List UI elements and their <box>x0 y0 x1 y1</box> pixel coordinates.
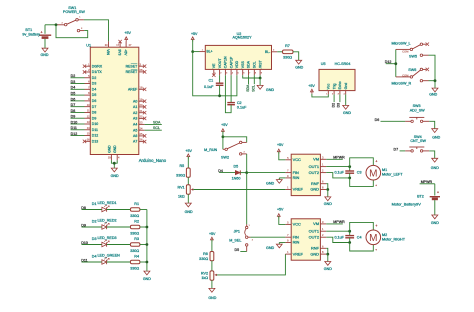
pin 3V3 (17) of U1 with no-connect <box>119 41 121 47</box>
svg-text:D7: D7 <box>394 148 399 152</box>
svg-text:SW2: SW2 <box>221 156 229 160</box>
svg-text:330Ω: 330Ω <box>130 267 139 271</box>
ground for LED rail <box>144 271 150 275</box>
svg-text:JP1: JP1 <box>234 230 240 234</box>
pin A3 (22) of U1 <box>139 117 145 119</box>
net label SDA vertical below U2 <box>248 75 250 84</box>
svg-text:GND: GND <box>208 296 216 300</box>
wire: SW1 to U1 VIN <box>84 20 109 42</box>
wire: +5V down to SW2 common <box>222 137 224 150</box>
svg-text:GND: GND <box>107 145 111 153</box>
svg-text:C4: C4 <box>357 235 362 239</box>
resistor R4 330ohm <box>130 260 140 264</box>
wire: SW6 NC to ground junction <box>429 80 436 82</box>
svg-text:M1: M1 <box>382 168 387 172</box>
wire: R5 to RV1 <box>187 177 189 185</box>
net label SDA wire from A4 <box>145 123 162 125</box>
net label D3 vertical below U5 Echo <box>339 94 341 102</box>
wire: SW2 NC down to diode junction <box>246 154 248 173</box>
junction U3 RNF/GND <box>326 188 329 191</box>
svg-text:330Ω: 330Ω <box>283 56 292 60</box>
svg-text:GND: GND <box>113 145 117 153</box>
svg-text:+: + <box>437 191 439 195</box>
svg-text:VREF: VREF <box>293 187 304 192</box>
svg-text:U5: U5 <box>321 62 326 66</box>
pin RESET (28) of U1 <box>139 71 145 73</box>
svg-text:D1: D1 <box>92 202 97 206</box>
wire: +5V rail down and across to VDD <box>193 52 237 96</box>
svg-text:D9: D9 <box>71 115 76 119</box>
wire: battery BT1 positive to junction <box>44 25 46 34</box>
svg-text:GND: GND <box>431 166 439 170</box>
pin OUT2 of U3 <box>320 172 326 174</box>
svg-text:FIN: FIN <box>293 234 299 239</box>
pin VCC of U3 <box>285 159 291 161</box>
svg-text:GND: GND <box>143 277 151 281</box>
no-connect on SW5 NO <box>426 43 429 46</box>
ground for microswitches <box>432 88 438 92</box>
svg-text:R6: R6 <box>203 252 208 256</box>
wire: U3 RNF to GND pin <box>326 184 328 190</box>
svg-text:GND: GND <box>41 53 49 57</box>
wire: U4 RNF to GND pin <box>326 248 328 254</box>
svg-text:LED_GREEN: LED_GREEN <box>98 253 121 257</box>
svg-text:R5: R5 <box>179 164 184 168</box>
pin RNF of U4 <box>320 247 326 249</box>
pin D6 (9) of U1 <box>85 100 91 102</box>
svg-text:D7: D7 <box>71 103 76 107</box>
pin GND of U4 <box>320 253 326 255</box>
svg-text:SCL: SCL <box>153 126 160 130</box>
svg-text:+5V: +5V <box>277 208 284 212</box>
resistor R3 330ohm <box>130 243 140 247</box>
pin BL- of U2 <box>272 51 278 53</box>
svg-text:330Ω: 330Ω <box>199 257 208 261</box>
wire: U3 OUT1 to motor and C3 <box>326 166 350 168</box>
wire: +5V to U5 Vcc <box>312 94 328 97</box>
svg-text:CAP1P: CAP1P <box>229 56 233 68</box>
LED D3 LED_RED3 <box>102 242 107 246</box>
junction node battery/switch <box>55 23 58 26</box>
wire: SW1 NC contact loop back to battery node <box>56 25 88 38</box>
svg-text:RV1: RV1 <box>177 186 184 190</box>
pin D13 (16) of U1 <box>85 140 91 142</box>
no-connect on AREF <box>143 88 146 91</box>
LED D2 LED_RED2 <box>102 225 107 229</box>
ground for U4 <box>325 262 331 266</box>
svg-text:D3: D3 <box>337 103 341 108</box>
wire: +5V to SW2 NO contact <box>223 137 247 143</box>
svg-text:D11: D11 <box>92 128 98 132</box>
wire: U4 OUT1 to motor and C4 <box>326 230 350 232</box>
power +5V above U1 <box>125 37 128 40</box>
ground for SW3 <box>432 129 438 133</box>
svg-text:330Ω: 330Ω <box>130 232 139 236</box>
svg-text:D12: D12 <box>92 134 98 138</box>
resistor R5 330ohm <box>186 168 190 177</box>
svg-text:MPWR: MPWR <box>333 220 345 224</box>
junction rail row2 <box>146 226 149 229</box>
svg-text:0.1uF: 0.1uF <box>334 171 344 175</box>
svg-text:+5V: +5V <box>209 232 216 236</box>
capacitor C4 0.1uF across motor M2 <box>349 231 351 235</box>
svg-text:OUT2: OUT2 <box>309 170 319 175</box>
svg-text:LED_RED1: LED_RED1 <box>98 201 117 205</box>
capacitor C1 0.1uF on VOUT <box>219 75 221 83</box>
svg-text:GND: GND <box>310 251 319 256</box>
pin D9 (12) of U1 <box>85 117 91 119</box>
svg-text:R1: R1 <box>134 202 139 206</box>
svg-text:D2: D2 <box>92 76 97 80</box>
no-connect on A0 <box>143 100 146 103</box>
svg-text:AQM1602Y: AQM1602Y <box>232 36 252 40</box>
svg-text:BT1: BT1 <box>25 28 32 32</box>
svg-text:GND: GND <box>185 210 193 214</box>
svg-text:D3: D3 <box>92 82 97 86</box>
pin RIN of U4 <box>285 242 291 244</box>
svg-text:0.1uF: 0.1uF <box>237 106 247 110</box>
svg-text:330Ω: 330Ω <box>176 174 185 178</box>
svg-text:VM: VM <box>313 157 319 162</box>
junction U4 RNF/GND <box>326 253 329 256</box>
wire: U1 GND pins join <box>111 160 117 163</box>
svg-text:Trig: Trig <box>332 83 336 89</box>
no-connect on SW6 NO <box>426 68 429 71</box>
svg-text:A3: A3 <box>133 117 137 121</box>
LCD module U2 AQM1602Y body <box>205 45 271 69</box>
svg-text:POWER_SW: POWER_SW <box>63 10 85 14</box>
pin OUT1 of U4 <box>320 230 326 232</box>
svg-text:FIN: FIN <box>293 170 299 175</box>
wire: U3 OUT2 to C3 bottom and motor <box>326 173 350 178</box>
svg-text:U1: U1 <box>86 43 91 47</box>
no-connect on RESET <box>143 70 146 73</box>
pin VM of U4 <box>320 223 326 225</box>
svg-text:MicroSW_L: MicroSW_L <box>392 41 411 45</box>
svg-text:1kΩ: 1kΩ <box>201 276 208 280</box>
motor M2 Motor_RIGHT <box>366 230 381 245</box>
svg-text:SW5: SW5 <box>409 55 417 59</box>
pin D7 (10) of U1 <box>85 106 91 108</box>
no-connect on D1/TX <box>83 70 86 73</box>
svg-text:D12: D12 <box>71 132 78 136</box>
svg-text:AREF: AREF <box>128 87 137 91</box>
pin GND (4) of U1 bottom <box>116 155 118 161</box>
pin A6 (25) of U1 <box>139 135 145 137</box>
svg-text:+5V: +5V <box>191 32 198 36</box>
svg-text:OUT1: OUT1 <box>309 228 319 233</box>
junction diode / M_RUN rail <box>245 171 248 174</box>
svg-text:VIN: VIN <box>106 49 110 55</box>
svg-text:BL+: BL+ <box>207 50 213 54</box>
svg-text:D5: D5 <box>234 164 239 168</box>
ground for RV1 <box>185 203 191 207</box>
svg-text:GND: GND <box>429 93 437 97</box>
svg-text:GND: GND <box>432 135 440 139</box>
pin AREF (18) of U1 <box>139 88 145 90</box>
svg-text:R2: R2 <box>134 220 139 224</box>
svg-text:GND: GND <box>324 202 332 206</box>
svg-text:D5: D5 <box>235 248 240 252</box>
ground for BT2 <box>432 215 438 219</box>
net label SCL vertical below U2 <box>253 75 255 84</box>
svg-text:3V3: 3V3 <box>118 49 122 55</box>
power +5V for R5 <box>187 154 190 157</box>
ground below BT1 <box>42 48 48 52</box>
pin VIN (30) of U1 <box>108 41 110 47</box>
pin A2 (21) of U1 <box>139 112 145 114</box>
net label D12 wire <box>386 63 396 65</box>
pin RNF of U3 <box>320 183 326 185</box>
svg-text:R3: R3 <box>134 237 139 241</box>
ground for U2 <box>257 85 263 89</box>
svg-text:+: + <box>375 224 377 228</box>
pin RIN of U3 <box>285 177 291 179</box>
svg-text:GND: GND <box>266 181 275 185</box>
pin A7 (26) of U1 <box>139 141 145 143</box>
net label D4 wire <box>71 88 85 90</box>
svg-text:M: M <box>369 168 377 179</box>
svg-text:C3: C3 <box>357 171 362 175</box>
svg-text:SW6: SW6 <box>408 68 416 72</box>
wire: D3 to R3 <box>107 244 131 246</box>
wire: battery BT1 negative to ground <box>44 39 46 49</box>
net label D8 wire <box>71 111 85 113</box>
pin OUT1 of U3 <box>320 166 326 168</box>
svg-text:VE: VE <box>212 63 216 68</box>
wire: R1 to ground rail <box>140 209 147 211</box>
svg-text:VOUT: VOUT <box>218 58 222 69</box>
svg-text:VM: VM <box>313 221 319 226</box>
pin D2 (5) of U1 <box>85 77 91 79</box>
svg-text:+5V: +5V <box>124 31 131 35</box>
pin D0/RX (1) of U1 <box>85 65 91 67</box>
net label D2 wire <box>71 77 85 79</box>
svg-text:D1/TX: D1/TX <box>92 70 103 74</box>
pin Trig (2) of U5 <box>333 91 335 95</box>
wire: R2 to ground rail <box>140 226 147 228</box>
pin VCC of U4 <box>285 223 291 225</box>
svg-text:RNF: RNF <box>311 181 320 186</box>
pin D11 (14) of U1 <box>85 129 91 131</box>
ground at U3 RIN <box>279 177 285 179</box>
net label D11 wire <box>71 129 85 131</box>
net label D3 wire <box>71 83 85 85</box>
svg-text:R7: R7 <box>285 44 290 48</box>
svg-text:OUT2: OUT2 <box>309 234 319 239</box>
svg-text:A6: A6 <box>133 134 137 138</box>
pin RESET (3) of U1 <box>139 65 145 67</box>
svg-text:D4: D4 <box>92 87 97 91</box>
pin SDA (7) of U2 <box>248 69 250 75</box>
no-connect on A6 <box>143 134 146 137</box>
ground for RV2 <box>209 288 215 292</box>
wire: R3 to ground rail <box>140 244 147 246</box>
pin FIN of U3 <box>285 172 291 174</box>
wire: left rail for microswitches <box>395 49 397 77</box>
pin VREF of U3 <box>285 189 291 191</box>
svg-text:9v_Battery: 9v_Battery <box>22 33 40 37</box>
wire: LED ground rail <box>146 210 148 272</box>
svg-text:Echo: Echo <box>338 81 342 89</box>
svg-text:Motor_Battery9V: Motor_Battery9V <box>392 202 422 207</box>
svg-text:COM: COM <box>402 73 408 77</box>
svg-text:Motor_LEFT: Motor_LEFT <box>382 173 403 177</box>
net label SCL wire from A5 <box>145 129 162 131</box>
power +5V for U2 backlight <box>191 37 194 40</box>
wire: VSS and /RST to ground <box>243 75 260 78</box>
net label D7 wire <box>71 106 85 108</box>
net label D6 wire <box>71 100 85 102</box>
wire: D1 to R1 <box>107 209 131 211</box>
svg-text:SCL: SCL <box>253 61 257 68</box>
svg-text:D5: D5 <box>71 92 76 96</box>
pin FIN of U4 <box>285 236 291 238</box>
svg-text:+5V: +5V <box>308 84 315 88</box>
svg-text:GND: GND <box>324 267 332 271</box>
pin OUT2 of U4 <box>320 236 326 238</box>
svg-text:D6: D6 <box>71 97 76 101</box>
svg-text:Arduino_Nano: Arduino_Nano <box>139 158 167 163</box>
junction +5V SW2 <box>222 135 225 138</box>
wire: M_RUN rail down to JP1 <box>246 173 248 225</box>
svg-text:RESET: RESET <box>126 70 139 74</box>
junction rail row3 <box>146 243 149 246</box>
svg-text:+5V: +5V <box>124 49 128 56</box>
wire: R4 to ground rail <box>140 261 147 263</box>
pin A4 (23) of U1 <box>139 123 145 125</box>
svg-text:A1: A1 <box>133 105 137 109</box>
pin A1 (20) of U1 <box>139 106 145 108</box>
svg-text:D3: D3 <box>92 237 97 241</box>
battery BT1 9v_Battery <box>39 34 51 36</box>
pin BL+ of U2 <box>200 51 206 53</box>
svg-text:D12: D12 <box>385 60 392 64</box>
wire: +5V to BL+ <box>193 51 200 53</box>
svg-text:M: M <box>369 233 377 244</box>
svg-text:1kΩ: 1kΩ <box>178 195 185 199</box>
pin D8 (11) of U1 <box>85 111 91 113</box>
potentiometer RV2 1kohm <box>210 271 214 280</box>
svg-text:D2: D2 <box>71 74 76 78</box>
motor driver U4 body <box>291 219 320 260</box>
pin VDD (5) of U2 <box>236 69 238 75</box>
svg-text:+5V: +5V <box>277 143 284 147</box>
svg-text:OUT1: OUT1 <box>309 164 319 169</box>
pin Echo (3) of U5 <box>339 91 341 95</box>
op-amp U1 Arduino_Nano body <box>90 47 139 154</box>
svg-text:GND: GND <box>295 66 303 70</box>
svg-text:SDA: SDA <box>153 120 161 124</box>
pin VM of U3 <box>320 158 326 160</box>
svg-text:RV2: RV2 <box>201 271 208 275</box>
pin Gnd (4) of U5 <box>345 91 347 95</box>
no-connect on A1 <box>143 105 146 108</box>
svg-text:GND: GND <box>431 221 439 225</box>
svg-text:D7: D7 <box>92 105 97 109</box>
svg-text:Gnd: Gnd <box>344 83 348 90</box>
svg-text:D13: D13 <box>92 139 98 143</box>
svg-text:M_SEL: M_SEL <box>229 238 241 242</box>
power +5V for U4 <box>277 214 280 217</box>
svg-text:ADJ_SW: ADJ_SW <box>410 108 425 112</box>
svg-text:D4: D4 <box>71 86 76 90</box>
wire: SW4 to ground <box>429 151 435 158</box>
svg-text:A4: A4 <box>133 123 137 127</box>
junction rail row4 <box>146 261 149 264</box>
svg-text:RIN: RIN <box>293 240 300 245</box>
ground for SW4 <box>432 158 438 162</box>
sensor U5 HC-SR04 body <box>319 69 355 90</box>
svg-text:VCC: VCC <box>293 222 301 227</box>
svg-text:D10: D10 <box>92 122 98 126</box>
no-connect on RESET <box>143 65 146 68</box>
net label D2 vertical below U5 Trig <box>333 94 335 102</box>
svg-text:M_RUN: M_RUN <box>204 148 217 152</box>
net label D5 wire <box>71 94 85 96</box>
svg-text:GND: GND <box>310 187 319 192</box>
svg-text:VSS: VSS <box>241 61 245 69</box>
svg-text:LED_RED3: LED_RED3 <box>98 236 117 240</box>
svg-text:D2: D2 <box>332 103 336 108</box>
pin D10 (13) of U1 <box>85 123 91 125</box>
svg-text:VDD: VDD <box>235 60 239 68</box>
pin A5 (24) of U1 <box>139 129 145 131</box>
svg-text:C2: C2 <box>237 101 242 105</box>
svg-text:A2: A2 <box>133 111 137 115</box>
svg-text:D8: D8 <box>92 111 97 115</box>
svg-text:RESET: RESET <box>126 64 139 68</box>
wire: BT2 to ground <box>434 200 436 215</box>
potentiometer RV1 1kohm <box>186 185 190 194</box>
svg-text:D2: D2 <box>92 220 97 224</box>
pin D5 (8) of U1 <box>85 94 91 96</box>
svg-text:BT2: BT2 <box>417 194 424 198</box>
no-connect on A3 <box>143 117 146 120</box>
wire: SW5 NC to right rail <box>429 55 436 80</box>
pin GND (29) of U1 bottom <box>110 155 112 161</box>
pin CAP1N (3) of U2 <box>224 69 226 75</box>
wire: diode to U3 FIN <box>240 172 246 174</box>
junction +5V / BL+ <box>191 50 194 53</box>
svg-text:VREF: VREF <box>293 251 304 256</box>
wire: D4 to R4 <box>107 261 131 263</box>
net label D5 wire at JP1 pin3 <box>240 251 246 253</box>
svg-text:GND: GND <box>111 174 119 178</box>
net label MPWR at U4 VM <box>326 223 343 225</box>
wire: JP1 pin2 to U4 FIN <box>250 236 285 238</box>
svg-text:SDA: SDA <box>247 60 251 68</box>
pin D4 (7) of U1 <box>85 88 91 90</box>
svg-text:MicroSW_R: MicroSW_R <box>392 81 412 85</box>
pin D12 (15) of U1 <box>85 135 91 137</box>
svg-text:COM: COM <box>402 49 408 53</box>
ground for U5 <box>343 105 349 109</box>
pin Vcc (1) of U5 <box>327 91 329 95</box>
svg-text:D6: D6 <box>375 118 380 122</box>
svg-text:A5: A5 <box>133 128 137 132</box>
svg-text:GND: GND <box>266 88 275 92</box>
pin +5V (27) of U1 <box>125 41 127 47</box>
svg-text:/RST: /RST <box>258 59 262 68</box>
ground for U3 <box>325 197 331 201</box>
svg-text:R4: R4 <box>134 255 139 259</box>
LED D1 LED_RED1 <box>102 207 107 211</box>
wire: R7 to ground <box>293 52 299 61</box>
no-connect on D13 <box>83 140 86 143</box>
svg-text:D4: D4 <box>92 255 97 259</box>
svg-text:VCC: VCC <box>293 157 301 162</box>
